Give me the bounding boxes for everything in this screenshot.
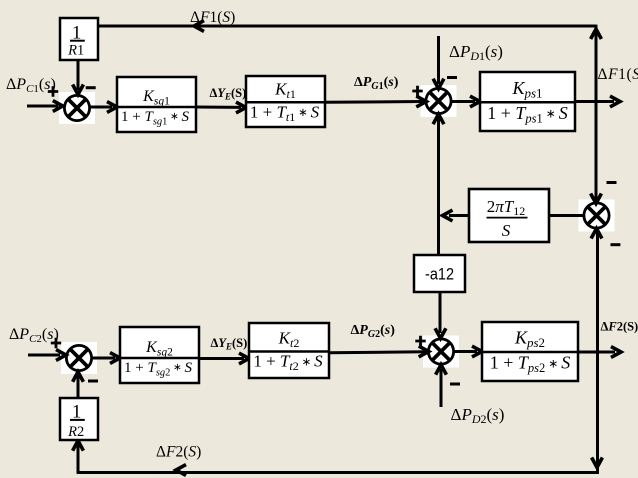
block -a12 [414,255,465,292]
wire S4 to block Kps2 [454,346,482,357]
wire Kps1 output dF1 to right [574,96,620,107]
block Ksg1 [117,77,196,132]
sign minus S4 [450,383,460,386]
sign minus S3 bottom [611,243,621,246]
sign minus S2 [447,76,457,79]
wire summing S3 to T12 block [549,214,584,217]
sign minus S1 [86,86,96,89]
svg-text:ΔF1(S): ΔF1(S) [598,66,638,83]
wire S2 to block Kps1 [451,96,480,107]
wire Ksg1 to Kt1 (dYe) [196,102,246,113]
wire Ksg2 to Kt2 (dYe2) [199,353,249,364]
block Kt1 [246,76,325,127]
svg-text:ΔF2(S): ΔF2(S) [156,444,201,461]
block 1/R1 [60,18,98,60]
wire -a12 down into summing S4 [435,292,446,338]
wire 1/R1 output down to summing S1 [73,60,84,95]
svg-text:R1: R1 [67,43,84,59]
summing junction S5 [61,342,97,374]
block Ksg2 [120,327,199,383]
wire 1/R2 output up into S5 [73,372,84,398]
summing junction S1 [59,92,95,124]
svg-text:-a12: -a12 [425,265,454,284]
wire right vertical lower (dF2 branch up into S3 and down to bottom wire) [591,229,602,474]
wire T12 block output left into tie line [443,210,470,221]
sign minus S5 [88,380,98,383]
wire dPd1 input down into S2 [433,36,444,89]
sign plus S4 [415,336,425,346]
sign minus S3 top [607,181,617,184]
svg-text:R2: R2 [67,424,84,440]
wire top feedback dF1 horizontal [98,21,596,32]
wire Kps2 output dF2 to right [578,347,621,358]
wire input dPc2 arrow into S5 [28,350,66,361]
wire Kt1 to summing S2 (dPg1) [325,96,426,107]
block Kps2 [482,322,578,381]
wire tie vertical from S2 bottom down to -a12 block [433,114,444,255]
block Kps1 [480,72,575,131]
wire right vertical area1 (dF1 branch up to top wire and down to tie summing) [591,25,602,204]
svg-text:S: S [502,221,511,240]
wire input dPc1 arrow into S1 [27,101,63,112]
wire Kt2 to summing S4 (dPg2) [329,346,429,357]
summing junction S4 [423,336,459,368]
block 2piT12/S [469,189,549,242]
wire bottom feedback dF2 horizontal [78,465,599,476]
wire bottom corner up into 1/R2 [73,441,84,474]
block Kt2 [249,323,329,378]
wire dPd2 input up into S4 [436,365,447,407]
summing junction S3 [579,200,615,232]
summing junction S2 [421,85,457,117]
sign plus S5 [51,338,61,348]
block 1/R2 [60,398,98,440]
svg-text:ΔF1(S): ΔF1(S) [190,9,235,26]
wire S1 to block Ksg1 [91,102,118,113]
wire S5 to block Ksg2 [92,353,120,364]
svg-text:ΔF2(S): ΔF2(S) [601,320,638,334]
sign plus S2 [412,86,422,96]
sign plus S1 [48,86,58,96]
